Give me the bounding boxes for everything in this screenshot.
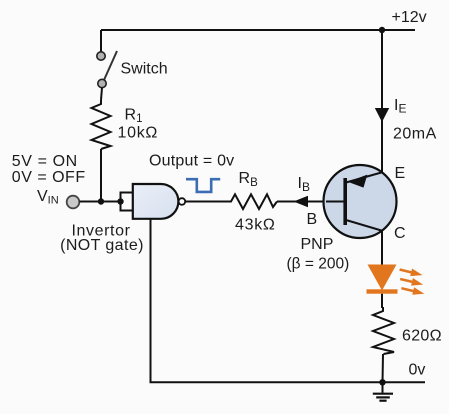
wire LED to R620 xyxy=(382,294,383,307)
node R1 junction xyxy=(98,198,104,204)
wire gate output to RB xyxy=(185,201,228,203)
svg-text:Switch: Switch xyxy=(121,61,168,78)
wire gate bottom down and ground rail xyxy=(151,219,426,382)
arrowhead IE (points down) xyxy=(375,108,389,122)
wire collector to LED xyxy=(381,231,383,266)
wire R620 to ground rail xyxy=(382,354,385,382)
svg-text:43kΩ: 43kΩ xyxy=(235,217,276,234)
wire RB to base xyxy=(277,201,326,203)
wire tied NAND inputs bracket xyxy=(121,193,133,211)
wire top +12v rail xyxy=(101,29,415,31)
node gate input junction xyxy=(117,198,123,204)
node junction at +12v rail xyxy=(379,27,385,33)
resistor RB 43k xyxy=(228,194,277,209)
terminal VIN xyxy=(67,196,80,209)
wire VIN to gate xyxy=(80,201,121,203)
svg-text:0V = OFF: 0V = OFF xyxy=(12,169,86,186)
LED D1 xyxy=(367,265,425,295)
wire emitter vertical from rail to transistor xyxy=(381,30,383,173)
svg-text:C: C xyxy=(394,225,406,242)
ground symbol xyxy=(373,382,393,400)
svg-text:10kΩ: 10kΩ xyxy=(118,125,159,142)
svg-text:E: E xyxy=(395,165,406,182)
wire R1 down to VIN node xyxy=(100,149,102,202)
inverter U1 (NAND as NOT gate) xyxy=(133,184,185,219)
svg-text:20mA: 20mA xyxy=(393,126,437,143)
svg-text:620Ω: 620Ω xyxy=(402,328,442,345)
transistor Q1 PNP xyxy=(324,165,397,238)
svg-text:(β = 200): (β = 200) xyxy=(287,256,350,273)
svg-text:Output = 0v: Output = 0v xyxy=(149,153,234,170)
wire from rail down to switch xyxy=(100,30,102,52)
svg-text:PNP: PNP xyxy=(301,236,334,253)
svg-text:+12v: +12v xyxy=(392,9,427,26)
resistor R 620 xyxy=(373,307,394,354)
svg-text:5V = ON: 5V = ON xyxy=(12,153,78,170)
switch S1 xyxy=(97,51,117,88)
svg-text:0v: 0v xyxy=(409,362,426,379)
resistor R1 10k xyxy=(92,100,111,149)
arrowhead IB (points left) xyxy=(294,196,309,208)
node ground junction xyxy=(379,379,385,385)
svg-text:(NOT gate): (NOT gate) xyxy=(60,237,144,254)
svg-text:B: B xyxy=(307,211,318,228)
wire switch to R1 xyxy=(101,88,102,100)
waveform pulse symbol xyxy=(186,179,220,192)
